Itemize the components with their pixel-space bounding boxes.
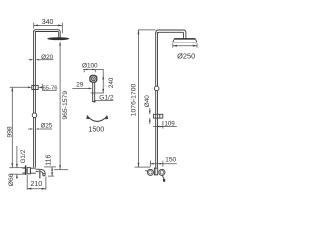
mixer front view: valve body — [30, 168, 35, 173]
dimension 29 leader — [72, 87, 89, 89]
side view: rain head profile — [174, 38, 195, 40]
front view: rain shower head (flat ellipse) — [47, 37, 69, 40]
mixer front view: body tube — [36, 168, 41, 170]
hand shower D100 dim line — [83, 69, 103, 72]
label D25 leader with arrows at pipe — [28, 128, 52, 130]
G1/2 leader line (wall connection) — [16, 146, 18, 168]
svg-text:Ø25: Ø25 — [41, 122, 53, 129]
front view: riser pipe vertical double line — [33, 31, 35, 168]
wall bracket on riser — [32, 85, 38, 89]
svg-text:G1/2: G1/2 — [20, 149, 27, 163]
mixer front view: lever handle (front) — [39, 170, 40, 179]
hand shower handle — [92, 82, 94, 101]
svg-text:210: 210 — [30, 181, 42, 188]
dimension 965-1579 vertical line — [54, 44, 68, 169]
D66 lower arrow — [16, 174, 18, 179]
svg-text:29: 29 — [76, 82, 84, 89]
mixer front view: union nut — [27, 168, 30, 174]
pipe joint circle — [32, 113, 37, 118]
side mixer: wall stub — [145, 170, 147, 172]
hose length arc 1500 — [87, 116, 108, 122]
side view: riser pipe — [155, 32, 157, 168]
dimension 1076-1700 vertical — [135, 30, 156, 167]
dimension 109 — [153, 121, 177, 129]
label D20 leader with arrows at pipe — [29, 59, 54, 61]
dimension 210 — [27, 175, 46, 190]
svg-text:65-76: 65-76 — [42, 85, 58, 91]
svg-text:340: 340 — [42, 19, 54, 26]
escutcheon bottom tick — [9, 173, 25, 175]
mixer front view: wall stubs — [22, 167, 25, 169]
dimension 340 — [34, 23, 63, 34]
svg-text:998: 998 — [7, 126, 14, 138]
dimension 998 vertical line — [10, 87, 28, 167]
side mixer: body block — [154, 168, 157, 175]
svg-text:109: 109 — [164, 120, 175, 127]
dimension 240 vertical — [91, 69, 104, 93]
side mixer: front union circle — [159, 169, 165, 175]
dimension D250 — [173, 43, 197, 47]
svg-text:Ø250: Ø250 — [177, 51, 195, 60]
slider holder on riser — [153, 114, 162, 118]
svg-text:G1/2: G1/2 — [99, 94, 114, 101]
dimension 116 — [44, 167, 56, 176]
side mixer: lever handle — [162, 175, 163, 179]
svg-text:1500: 1500 — [88, 126, 104, 134]
hand shower head (rounded square with circles) — [90, 75, 97, 82]
svg-text:240: 240 — [108, 77, 115, 88]
dimension 150 — [150, 161, 177, 167]
svg-text:Ø100: Ø100 — [82, 62, 98, 69]
svg-text:Ø66: Ø66 — [8, 173, 15, 186]
svg-text:1076-1700: 1076-1700 — [131, 84, 138, 117]
bracket dim 65-76 arrows — [28, 87, 32, 89]
hand shower G1/2 label — [96, 100, 114, 103]
svg-text:116: 116 — [46, 155, 53, 166]
mixer front view: spout bend — [40, 169, 45, 174]
mixer front view: escutcheon bar — [25, 165, 26, 174]
side mixer: wall union circle — [147, 169, 153, 175]
side view: pipe joint circle — [154, 86, 159, 91]
bottom reference tick left (escutcheon top) — [9, 167, 25, 169]
side view: top arm — [156, 30, 186, 38]
svg-text:150: 150 — [165, 157, 176, 164]
front view: top horizontal arm to shower head — [34, 30, 61, 38]
mixer front view: spout outlet — [43, 174, 45, 176]
svg-text:Ø20: Ø20 — [41, 54, 54, 61]
dimension D40 — [149, 108, 151, 124]
svg-text:965-1579: 965-1579 — [62, 91, 69, 120]
svg-text:Ø40: Ø40 — [144, 95, 151, 108]
